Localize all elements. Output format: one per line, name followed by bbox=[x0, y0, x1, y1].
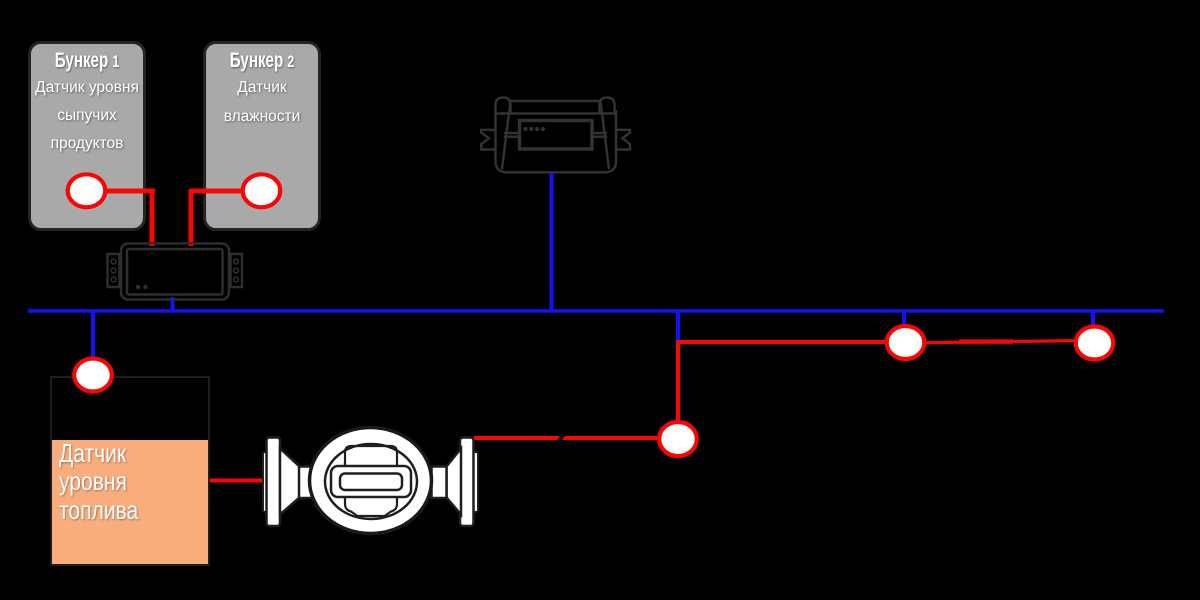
blue bus wire bbox=[28, 309, 1164, 313]
red wire: thin link node C4 to node C6 bbox=[924, 341, 1076, 343]
node C4 bbox=[887, 326, 925, 359]
blue stub wire: bus to tank node bbox=[91, 311, 95, 360]
blue stub wire: bus to elbow node bbox=[676, 311, 680, 341]
Bunker 2 box (Бункер 2 / Датчик влажности) bbox=[203, 41, 321, 231]
Bunker 1 box (Бункер 1 / Датчик уровня сыпучих продуктов) bbox=[28, 41, 146, 231]
red wire: tank to flow meter bbox=[210, 479, 268, 483]
blue stub wire: bus to node C6 bbox=[1091, 311, 1095, 328]
controller U1 (top device) bbox=[481, 98, 630, 173]
blue stub wire: controller to bus bbox=[550, 172, 554, 312]
node C1 bbox=[68, 174, 106, 207]
fuel fill bbox=[52, 440, 208, 564]
wire break slash bbox=[553, 430, 569, 446]
node C2 bbox=[243, 174, 281, 207]
red wire: node C1 to junction box bbox=[104, 189, 155, 246]
node C6 bbox=[1076, 327, 1114, 360]
red wire: flow meter to node C5 bbox=[474, 436, 660, 440]
red wire: elbow from node C5 up and right to node C4 bbox=[678, 342, 905, 436]
blue stub wire: bus to node C4 bbox=[902, 311, 906, 327]
red wire: node C2 to junction box bbox=[191, 189, 243, 246]
node C5 bbox=[659, 422, 697, 456]
blue stub wire: junction box to bus bbox=[171, 297, 175, 312]
Fuel tank (Датчик уровня топлива) bbox=[50, 376, 210, 566]
junction box U2 (middle device) bbox=[108, 244, 243, 300]
red wire: thick overlay segment bbox=[959, 339, 1013, 344]
flow meter FM1 bbox=[263, 428, 478, 534]
node C3 bbox=[74, 359, 112, 392]
